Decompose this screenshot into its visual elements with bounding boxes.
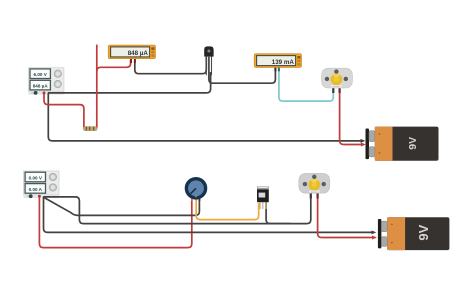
svg-text:0.00 V: 0.00 V: [29, 175, 43, 180]
svg-text:0.00 A: 0.00 A: [29, 187, 43, 192]
wire: black, multimeter M2 left pin to transistor Q1 middle leg: [209, 57, 276, 83]
wire: black, power supply PS1 down to battery BAT1 negative: [48, 93, 363, 141]
junction arrow: black wire end at battery BAT2: [372, 230, 377, 234]
junction arrow: red wire end at battery BAT2: [372, 236, 377, 240]
svg-text:6.00 V: 6.00 V: [34, 72, 48, 77]
wire: black, power supply PS2 to motor MOT2 left pin: [43, 193, 311, 224]
motor MOT1: [322, 68, 353, 93]
svg-text:139 mA: 139 mA: [272, 59, 295, 66]
svg-text:9V: 9V: [407, 137, 419, 150]
multimeter M1 (848 µA): [108, 45, 155, 63]
wire: red, power supply PS1 (+) to resistor R1 left: [44, 93, 84, 127]
svg-text:848 µA: 848 µA: [128, 50, 149, 57]
wire: black, multimeter M1 right pin to transistor Q1 left leg: [135, 57, 207, 74]
junction arrow: black wire end at battery BAT1: [361, 139, 366, 143]
svg-text:848 µA: 848 µA: [33, 84, 49, 89]
wire: cyan, multimeter M2 right pin to motor MOT1 left pin: [279, 69, 333, 102]
junction arrow: red wire end at battery BAT1: [361, 143, 366, 147]
wire: black, power supply PS1 to transistor Q1 right leg: [48, 72, 211, 93]
potentiometer POT1: [186, 179, 205, 201]
power supply PS2: [24, 171, 60, 198]
svg-text:9V: 9V: [416, 224, 431, 240]
multimeter M2 (139 mA): [254, 54, 301, 72]
wire: red, motor MOT2 right pin to battery BAT2 positive: [318, 193, 376, 238]
wire: red, motor MOT1 right pin to battery BAT1 positive: [340, 88, 364, 145]
regulator U1 (TO-220): [257, 186, 269, 209]
wire: black, power supply PS2 diagonal to potentiometer POT1 right lead: [43, 197, 199, 215]
wire: red, resistor R1 right up to free end: [96, 45, 98, 127]
power supply PS1: [28, 68, 64, 95]
wire: black, regulator U1 right leg to motor wire: [266, 202, 290, 224]
wire: red, multimeter M1 left pin to red vertical: [97, 60, 131, 71]
svg-text:oooooo: oooooo: [333, 86, 341, 88]
wire: red, power supply PS2 (+) to potentiometer POT1 left lead: [39, 197, 191, 248]
motor MOT2: [299, 173, 330, 198]
battery BAT2 (9V): [378, 217, 450, 250]
wire: black, power supply PS2 to battery BAT2 negative: [44, 197, 375, 232]
resistor R1: [83, 127, 97, 131]
battery BAT1 (9V): [366, 127, 439, 161]
wire: orange, potentiometer POT1 wiper to regulator U1 left leg: [196, 198, 259, 220]
transistor Q1: [204, 46, 213, 75]
svg-text:oooooo: oooooo: [311, 191, 319, 193]
